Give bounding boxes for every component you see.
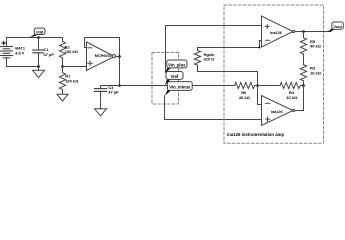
wire Rgain top to A1 minus: [198, 41, 262, 48]
flag Vout: [327, 22, 343, 32]
battery BAT1: [1, 38, 25, 67]
resistor R4: [280, 82, 300, 100]
svg-text:MCP6001: MCP6001: [95, 54, 112, 58]
svg-text:820 Ω: 820 Ω: [204, 57, 214, 61]
ground (battery): [33, 67, 45, 78]
op-amp U1 MCP6001: [87, 42, 116, 71]
svg-text:ina126: ina126: [270, 31, 282, 35]
svg-text:40 kΩ: 40 kΩ: [310, 44, 322, 49]
wire A1 output: [295, 31, 331, 33]
resistor R2: [59, 38, 78, 67]
dashed box sensor inputs: [152, 53, 179, 105]
wire output lead: [115, 56, 119, 58]
Vdd flag: [30, 28, 45, 37]
svg-text:Vout: Vout: [333, 24, 342, 29]
svg-text:Rgain: Rgain: [204, 53, 215, 57]
svg-text:BAT1: BAT1: [15, 46, 25, 50]
svg-text:47 µF: 47 µF: [108, 90, 119, 95]
resistor R6: [235, 82, 255, 100]
svg-text:Vin_plus: Vin_plus: [168, 62, 186, 67]
wire Vin_plus vertical: [165, 26, 167, 72]
node Vref junction: [118, 84, 121, 87]
node row junction: [256, 84, 259, 87]
svg-text:Vref: Vref: [171, 74, 180, 79]
wire Vref row: [120, 85, 235, 87]
svg-text:4.8 V: 4.8 V: [15, 51, 24, 55]
wire Vin_plus to ina126: [166, 25, 262, 27]
node A1 output junction: [302, 30, 305, 33]
node rail/C1 junction: [37, 36, 40, 39]
wire midpoint to op-amp + input: [63, 66, 87, 68]
resistor Rgain: [194, 48, 214, 72]
flag Vin_plus: [165, 60, 187, 73]
wire R4 to node B: [300, 85, 303, 87]
svg-text:ina126 instrumentation amp: ina126 instrumentation amp: [227, 132, 284, 137]
resistor R5: [300, 32, 321, 65]
op-amp U2 ina126 top: [262, 16, 295, 47]
svg-text:10 kΩ: 10 kΩ: [286, 95, 298, 100]
capacitor C3: [95, 85, 120, 109]
battery BAT1 plus sign: [2, 41, 6, 45]
resistor R1: [59, 67, 79, 95]
op-amp U3 ina126 bottom: [262, 96, 295, 126]
svg-text:100 kΩ: 100 kΩ: [65, 49, 79, 54]
wire battery bottom: [7, 66, 39, 68]
wire Rgain bottom: [198, 72, 262, 105]
wire top rail Vdd: [7, 37, 63, 39]
resistor R3: [300, 65, 321, 86]
wire feedback loop: [85, 38, 120, 57]
dashed box ina126 instrumentation amp: [224, 5, 324, 143]
node battery/C1/ground junction: [37, 65, 40, 68]
node B junction: [302, 84, 305, 87]
node output junction: [118, 55, 121, 58]
wire output down to Vref row: [119, 57, 121, 86]
svg-text:ina126: ina126: [271, 110, 283, 114]
svg-text:Vin_minus: Vin_minus: [169, 85, 191, 90]
wire node B down to A2 output: [295, 86, 304, 111]
node Rgain top tee: [259, 47, 261, 49]
svg-text:40 kΩ: 40 kΩ: [239, 95, 251, 100]
flag Vin_minus: [165, 82, 193, 96]
capacitor C1: [33, 38, 54, 67]
node R2/R1 midpoint: [61, 65, 64, 68]
wire R6 to R4: [255, 85, 280, 87]
wire Vin_minus vertical and to ina126: [165, 96, 262, 120]
wire to C3: [101, 85, 120, 87]
flag Vref: [165, 72, 183, 86]
svg-text:10 kΩ: 10 kΩ: [310, 70, 322, 75]
svg-text:Vdd: Vdd: [36, 29, 44, 34]
ground (C3): [95, 109, 107, 116]
ground (R1): [57, 94, 68, 101]
svg-text:47 µF: 47 µF: [44, 52, 55, 57]
svg-text:100 kΩ: 100 kΩ: [65, 78, 79, 83]
